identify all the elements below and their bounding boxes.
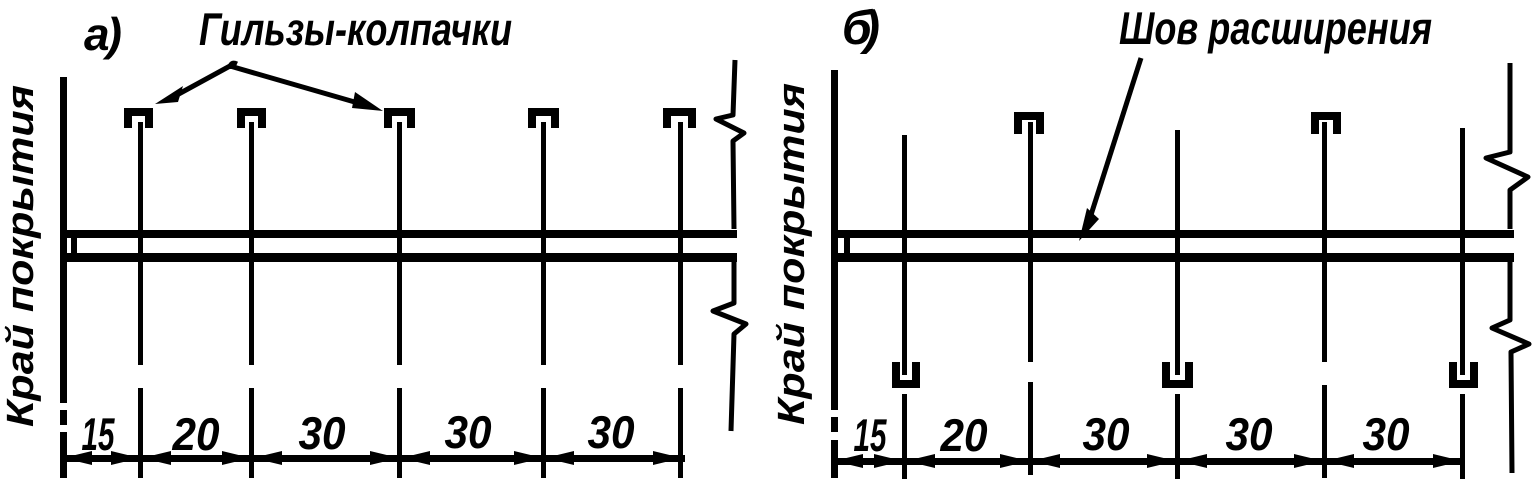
svg-text:а): а) bbox=[84, 8, 122, 60]
svg-text:15: 15 bbox=[854, 409, 888, 461]
cap 1 bbox=[128, 112, 149, 128]
pin 1 bbox=[138, 122, 143, 365]
leader arrow to joint bbox=[1079, 58, 1141, 241]
dimension line a bbox=[61, 455, 685, 462]
svg-text:30: 30 bbox=[299, 407, 346, 459]
pin 3 (cap below) bbox=[1175, 130, 1180, 375]
pin 4 (cap above) bbox=[1322, 122, 1327, 362]
svg-text:Гильзы-колпачки: Гильзы-колпачки bbox=[199, 3, 512, 55]
cap pin3 bottom (U) bbox=[1166, 362, 1189, 384]
cap pin4 top bbox=[1315, 116, 1337, 134]
pin 3 bbox=[397, 122, 402, 365]
pin 5 bbox=[678, 122, 683, 365]
joint end connector bbox=[71, 236, 77, 255]
joint end connector b bbox=[844, 236, 850, 255]
cap pin1 bottom (U) bbox=[896, 362, 916, 384]
bottom slab line b bbox=[831, 253, 1514, 262]
svg-text:30: 30 bbox=[1226, 408, 1273, 460]
svg-text:30: 30 bbox=[1083, 408, 1130, 460]
pin 5 (cap below) bbox=[1460, 128, 1465, 375]
cap 4 bbox=[532, 112, 555, 128]
svg-text:Шов расширения: Шов расширения bbox=[1119, 2, 1432, 54]
svg-text:30: 30 bbox=[1363, 408, 1410, 460]
bottom slab line bbox=[60, 253, 737, 262]
svg-text:20: 20 bbox=[940, 409, 988, 461]
cap pin5 bottom (U) bbox=[1453, 362, 1474, 384]
top slab line bbox=[60, 230, 737, 238]
edge line (left axis) b bbox=[831, 70, 838, 410]
svg-text:30: 30 bbox=[445, 406, 492, 458]
pin 4 bbox=[541, 122, 546, 365]
top slab line b bbox=[831, 230, 1514, 238]
svg-text:20: 20 bbox=[172, 408, 220, 460]
dimension arrows a bbox=[63, 451, 682, 465]
pin 2 (cap above) bbox=[1028, 122, 1033, 362]
svg-text:Край покрытия: Край покрытия bbox=[0, 85, 42, 427]
svg-text:15: 15 bbox=[82, 408, 116, 460]
caps a (П shapes) bbox=[128, 112, 692, 128]
svg-text:Край покрытия: Край покрытия bbox=[771, 83, 813, 425]
svg-text:б): б) bbox=[842, 2, 880, 55]
edge line (left axis) bbox=[60, 77, 67, 403]
slab line stubs at break a bbox=[702, 230, 737, 238]
cap 3 bbox=[388, 112, 411, 128]
leader arrow to caps 1 and 3 bbox=[155, 63, 383, 111]
dimension arrows b bbox=[834, 454, 1462, 468]
caps b bbox=[896, 116, 1474, 384]
pin 2 bbox=[249, 122, 254, 365]
svg-text:30: 30 bbox=[588, 406, 635, 458]
cap 2 bbox=[241, 112, 262, 128]
dimension line b bbox=[832, 458, 1465, 465]
right break line b bbox=[1486, 63, 1529, 473]
right break line a bbox=[713, 60, 746, 431]
cap pin2 top bbox=[1018, 116, 1040, 134]
pin 1 (cap below) bbox=[902, 135, 907, 375]
cap 5 bbox=[667, 112, 692, 128]
